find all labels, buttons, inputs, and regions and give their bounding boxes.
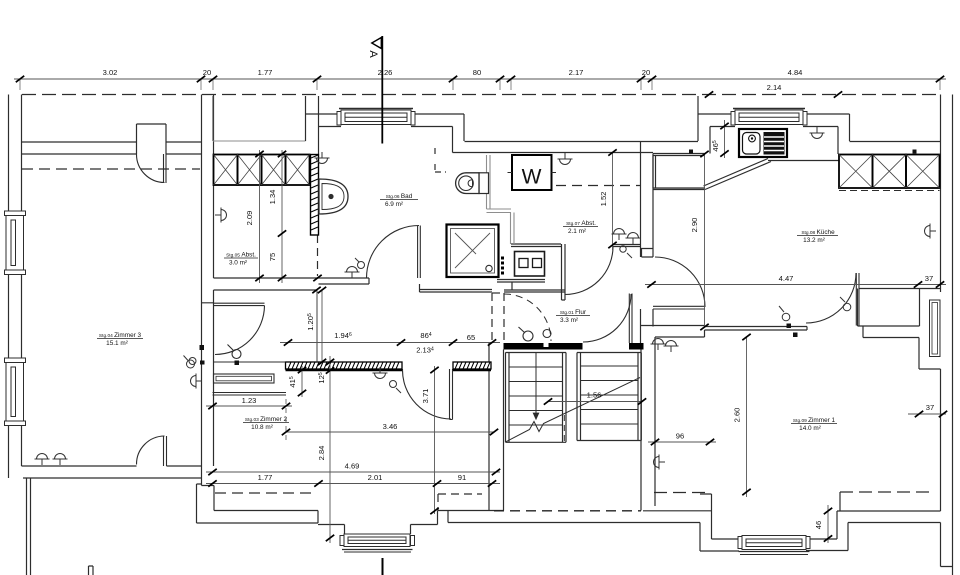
balustrade hatched strip east segment xyxy=(453,362,491,370)
svg-text:3.3 m²: 3.3 m² xyxy=(560,317,578,324)
kitchen chamfered wall outer diagonal xyxy=(705,162,771,190)
dimension 3.71 vertical xyxy=(434,366,436,514)
room label zimmer1 xyxy=(793,417,836,432)
outlet symbol abst07 pair with switch xyxy=(612,229,627,241)
svg-text:3.71: 3.71 xyxy=(421,389,430,404)
outlet circle at zimmer2 west wall xyxy=(189,358,196,365)
door zimmer2-hall leaf xyxy=(450,369,453,420)
svg-text:10.8 m²: 10.8 m² xyxy=(251,424,273,431)
outlet symbol zimmer1 west xyxy=(654,455,666,470)
svg-text:Stg.08 Küche: Stg.08 Küche xyxy=(801,229,835,236)
stairwell west wall outer line xyxy=(488,343,490,511)
door bad swing arc xyxy=(367,226,420,279)
flur north wall jog xyxy=(504,290,565,292)
zimmer2 dormer west wall xyxy=(213,486,215,511)
dimension 2.14 ticks on roof line xyxy=(705,91,713,97)
svg-text:80: 80 xyxy=(473,68,481,77)
section line A-A top xyxy=(367,36,382,144)
switch symbol near kitchen south door xyxy=(782,313,790,321)
abst05 south wall lower line xyxy=(214,289,317,291)
svg-text:6.9 m²: 6.9 m² xyxy=(385,201,403,208)
thin vertical line east of balustrade area xyxy=(316,290,318,362)
svg-text:Stg.07 Abst.: Stg.07 Abst. xyxy=(566,220,596,227)
kitchen closet dashed front line xyxy=(839,190,940,192)
svg-text:4.69: 4.69 xyxy=(345,462,360,471)
kitchen counter front edge xyxy=(768,160,839,162)
svg-text:A: A xyxy=(367,50,379,58)
bad south wall upper line xyxy=(319,277,370,279)
svg-text:20: 20 xyxy=(642,68,650,77)
svg-text:75: 75 xyxy=(268,253,277,261)
kitchen southwest box outline xyxy=(653,156,705,190)
window zimmer1 dormer south xyxy=(738,536,810,555)
south wall outer line under stairwell xyxy=(448,522,700,524)
abst05 south wall upper line xyxy=(214,277,319,279)
dimension 2.60 vertical zimmer1 xyxy=(746,337,748,497)
socket marks on walls xyxy=(200,150,917,366)
dashed under-roof corner zimmer2 east xyxy=(438,494,482,510)
wall segment east of bad door upper xyxy=(420,289,492,291)
wall zimmer3/abst05 band east line xyxy=(213,95,215,467)
window zimmer2 dormer south xyxy=(340,534,415,552)
svg-text:96: 96 xyxy=(676,432,684,441)
washbasin bad xyxy=(319,179,348,214)
kitchen dormer west cheek outer xyxy=(697,96,699,141)
zimmer1 dormer inner face east xyxy=(837,369,941,511)
dimension chain top xyxy=(14,79,946,90)
door zimmer3 south leaf xyxy=(164,436,167,466)
stairs right flight rails xyxy=(577,353,641,441)
dimension 4.69 horizontal xyxy=(206,471,500,473)
dimension 1.23 horizontal xyxy=(285,399,287,443)
door abst05-zimmer2 leaf xyxy=(214,303,265,305)
attic pocket bottom line xyxy=(213,140,306,142)
bad dormer east cheek outer line xyxy=(463,114,465,141)
bad dormer front outer face xyxy=(306,113,465,115)
svg-text:4.84: 4.84 xyxy=(788,68,803,77)
stairs down arrow xyxy=(533,353,539,419)
bad dormer front inner face xyxy=(319,126,453,128)
door abst07 swing arc xyxy=(565,247,613,295)
svg-text:1.77: 1.77 xyxy=(258,68,273,77)
small stub bottom far left xyxy=(89,566,94,575)
kitchen closet row with X boxes xyxy=(839,155,940,189)
south wall left of stairwell xyxy=(438,511,505,525)
zimmer2 dormer east pocket xyxy=(411,525,438,535)
new wall flur south black band west xyxy=(504,343,583,350)
svg-text:2.01: 2.01 xyxy=(368,473,383,482)
kitchen dormer east cheek xyxy=(850,114,941,142)
dimension 96 horizontal zimmer1 xyxy=(648,441,716,443)
zimmer1 north wall west band xyxy=(641,326,705,338)
zimmer3 south wall inner line xyxy=(22,465,202,467)
svg-text:2.26: 2.26 xyxy=(378,68,393,77)
window west upper xyxy=(5,211,26,275)
outlet symbol bad north xyxy=(315,152,330,164)
bathroom radiator hatched strip xyxy=(311,155,319,236)
wall segment east of bad door lower xyxy=(202,284,493,303)
svg-text:2.84: 2.84 xyxy=(317,446,326,461)
stairs left flight treads xyxy=(509,367,563,425)
kitchen dormer front inner face xyxy=(710,127,838,155)
door zimmer3 south swing arc xyxy=(136,436,164,465)
zimmer2 dormer inner face xyxy=(214,510,318,512)
outer wall west inner face xyxy=(21,95,23,467)
stairwell west wall inner line xyxy=(503,350,505,511)
svg-text:W: W xyxy=(522,166,542,189)
dimension 1.52 abst07 xyxy=(612,152,614,250)
outer wall east outer face xyxy=(952,95,954,575)
svg-text:91: 91 xyxy=(458,473,466,482)
door flur-zimmer1 leaf xyxy=(629,294,632,344)
zimmer2 dormer outer face xyxy=(197,522,319,524)
svg-text:65: 65 xyxy=(467,333,475,342)
zimmer3 south wall outer line xyxy=(23,477,202,479)
dimension 12.5 and 2.84 vertical xyxy=(329,356,331,543)
wall west of flur vertical xyxy=(562,244,566,300)
dashed knee wall marks bad east xyxy=(435,148,446,172)
svg-text:Stg.01 Flur: Stg.01 Flur xyxy=(560,309,587,316)
section line A-A bottom stub xyxy=(382,558,384,575)
stairs right flight treads xyxy=(581,366,639,424)
stairs dashed rail below cut xyxy=(563,415,565,441)
outlet symbol bad floor with circle xyxy=(345,267,360,279)
svg-text:Stg.06 Bad: Stg.06 Bad xyxy=(386,193,413,200)
dashed ceiling-height line zimmer3 xyxy=(22,168,200,170)
door zimmer3 north swing arc xyxy=(136,154,164,183)
long wall line mid lower xyxy=(453,152,654,154)
outer wall west outer face xyxy=(8,95,10,479)
zimmer1 dormer outer line east xyxy=(848,523,953,567)
door kitchen south leaf xyxy=(856,273,859,326)
svg-text:4.47: 4.47 xyxy=(779,274,794,283)
outlet symbol zimmer1 north pair xyxy=(651,339,666,351)
outer wall east xyxy=(940,95,942,293)
zimmer1 west wall inner line xyxy=(654,337,656,506)
zimmer1 dormer inner face west xyxy=(643,494,742,539)
svg-text:2.09: 2.09 xyxy=(245,211,254,226)
door flur-zimmer1 swing arc xyxy=(583,294,631,342)
attic pocket above abst05 west line xyxy=(212,96,214,141)
zimmer1 east niche walls xyxy=(919,338,941,370)
outlet symbol below balustrade xyxy=(373,367,388,379)
zimmer1 dormer east pocket xyxy=(806,492,848,551)
svg-text:14.0 m²: 14.0 m² xyxy=(799,425,821,432)
svg-text:1.56: 1.56 xyxy=(587,391,602,400)
dimension 46.5 kitchen counter xyxy=(724,120,726,158)
wall piece between flur and kitchen doors xyxy=(641,309,654,343)
door zimmer3 north leaf xyxy=(136,154,859,466)
svg-text:3.46: 3.46 xyxy=(383,422,398,431)
door zimmer2-hall swing arc xyxy=(402,369,451,419)
shower bad xyxy=(447,225,499,278)
room label zimmer3 xyxy=(99,332,142,347)
kitchen counter top wall line xyxy=(653,154,705,156)
dimension 41.5 vertical xyxy=(301,366,303,397)
svg-text:1.77: 1.77 xyxy=(258,473,273,482)
dimension 1.56 stairs xyxy=(548,401,642,403)
window kitchen dormer xyxy=(731,109,807,126)
bad northeast corner xyxy=(452,127,454,153)
switch circle zimmer3 east xyxy=(187,360,195,368)
under-stairs wall dashed thick xyxy=(494,510,641,512)
svg-text:3.0 m²: 3.0 m² xyxy=(229,260,247,267)
abst07 west wall gray upper xyxy=(486,155,488,209)
door jambs zimmer3 north xyxy=(137,124,167,154)
svg-text:Stg.05 Abst.: Stg.05 Abst. xyxy=(226,252,256,259)
zimmer1 north wall mid band xyxy=(705,327,808,331)
new wall flur south black band east xyxy=(629,343,644,350)
kitchen south wall east lower band xyxy=(863,326,919,338)
south wall step left xyxy=(447,511,449,523)
dashed ceiling-height line abst07 xyxy=(556,185,640,187)
abst07 west wall gray lower vertical xyxy=(511,213,515,245)
stairs left flight top and bottom xyxy=(506,353,567,443)
wall east of abst07 door xyxy=(613,245,641,247)
dimension chain mid 1.94 86 65 xyxy=(280,342,500,344)
bad south wall lower line xyxy=(319,278,370,284)
toilet bad xyxy=(456,173,489,194)
stairs cut line with zigzag xyxy=(506,378,641,443)
svg-text:3.02: 3.02 xyxy=(103,68,118,77)
switch symbol zimmer1 north xyxy=(843,303,851,311)
room label kueche xyxy=(801,229,835,244)
dimension 46 vertical bottom right xyxy=(827,505,829,543)
svg-text:37: 37 xyxy=(925,274,933,283)
room label bad xyxy=(385,193,413,208)
kitchen west wall stub lower cap xyxy=(642,249,654,258)
door kitchen south swing arc xyxy=(806,273,856,323)
dimension verticals abst05 xyxy=(260,150,283,283)
kitchen dormer front outer face xyxy=(698,113,850,115)
zimmer1 west wall outer line xyxy=(640,349,642,511)
west outer wall lower continuation xyxy=(27,478,31,575)
stairs right flight top and bottom xyxy=(577,353,641,441)
zimmer1 dormer outer line west xyxy=(700,523,739,552)
niche wall segment near stairs top xyxy=(497,280,545,291)
window west lower xyxy=(5,358,26,426)
wall zimmer3 north inner line xyxy=(22,153,201,155)
svg-text:2.17: 2.17 xyxy=(569,68,584,77)
svg-text:Stg.04 Zimmer 3: Stg.04 Zimmer 3 xyxy=(99,332,142,339)
kitchen chamfered wall inner diagonal xyxy=(704,159,769,187)
balustrade hatched strip west segment xyxy=(286,362,403,370)
svg-text:1.34: 1.34 xyxy=(268,190,277,205)
door kitchen west leaf xyxy=(653,306,705,309)
outlet symbol abst07 northeast xyxy=(558,153,573,165)
svg-text:37: 37 xyxy=(926,403,934,412)
svg-text:Stg.09 Zimmer 1: Stg.09 Zimmer 1 xyxy=(793,417,836,424)
dimension chain 1.77 2.01 91 xyxy=(206,483,500,485)
wall between abst07 and flur horizontal xyxy=(511,244,561,247)
stove unit flur niche xyxy=(515,252,545,277)
dimension 1.20 vertical xyxy=(321,290,323,362)
svg-text:13.2 m²: 13.2 m² xyxy=(803,237,825,244)
wall zimmer3/abst05 band west line xyxy=(201,95,203,467)
kitchen west wall outer line xyxy=(640,141,642,257)
thin wall line above balustrade west xyxy=(214,361,286,363)
dimension 2.90 kitchen xyxy=(704,154,706,327)
ventilation dots next to shower xyxy=(501,257,504,275)
roof edge dashed line top xyxy=(22,94,940,96)
long wall line mid upper xyxy=(465,141,699,143)
southwest wall step xyxy=(197,466,215,523)
stairs left flight rails xyxy=(506,353,567,443)
door abst05-zimmer2 swing arc xyxy=(215,306,265,355)
svg-text:2.60: 2.60 xyxy=(733,408,742,423)
room label flur xyxy=(560,309,587,324)
zimmer2 dormer west pocket xyxy=(318,511,345,535)
roof edge dashed line bottom right xyxy=(654,491,930,494)
door bad leaf xyxy=(418,226,421,279)
abst07 west wall gray jog xyxy=(487,209,512,213)
dashed wall under stairs west side xyxy=(492,293,504,342)
kitchen south wall east rectangle xyxy=(858,289,941,327)
kitchen northwest inner corner xyxy=(709,127,711,154)
window bad dormer xyxy=(337,109,415,126)
door abst05-zimmer2 handle xyxy=(232,350,241,359)
door kitchen west swing arc xyxy=(655,257,705,307)
bad dormer west cheek outer line xyxy=(305,96,307,141)
svg-text:20: 20 xyxy=(203,68,211,77)
window zimmer1 east niche xyxy=(930,300,941,357)
svg-text:2.90: 2.90 xyxy=(690,218,699,233)
svg-text:15.1 m²: 15.1 m² xyxy=(106,340,128,347)
room label abst05 xyxy=(226,252,256,267)
dimension 37 zimmer1 east xyxy=(908,413,946,415)
svg-text:46: 46 xyxy=(814,521,823,529)
svg-text:1.23: 1.23 xyxy=(242,396,257,405)
flur cellar door dashed swing arc xyxy=(504,294,551,341)
washing machine W xyxy=(508,155,557,190)
dimension 3.46 horizontal xyxy=(286,431,494,433)
garderobe wardrobe rectangle xyxy=(214,374,275,383)
outlet symbol kitchen east xyxy=(925,224,937,239)
kitchen west wall inner line xyxy=(641,154,654,249)
roof edge dashed line zimmer2 xyxy=(215,492,317,494)
outlet symbol abst05 west xyxy=(215,208,227,223)
flur cellar door handle circles xyxy=(523,331,533,341)
svg-text:Stg.03 Zimmer 2: Stg.03 Zimmer 2 xyxy=(245,416,288,423)
dashed line below bad radiator xyxy=(317,235,319,276)
svg-text:2.14: 2.14 xyxy=(767,83,782,92)
svg-text:2.1 m²: 2.1 m² xyxy=(568,228,586,235)
closet row bathroom wall with X boxes xyxy=(214,155,310,186)
garderobe niche bottom wall xyxy=(213,393,287,396)
svg-text:1.52: 1.52 xyxy=(599,192,608,207)
outlet symbol zimmer3 south pair xyxy=(35,454,50,466)
kitchen sink unit xyxy=(739,129,787,157)
room label abst07 xyxy=(566,220,596,235)
lamp symbol kitchen counter xyxy=(810,127,825,139)
dimension 4.47 and 37 kitchen south xyxy=(645,284,946,286)
room label zimmer2 xyxy=(245,416,288,431)
bad dormer west cheek inner line xyxy=(318,96,320,154)
outlet symbol zimmer3 east xyxy=(191,374,203,389)
wall zimmer3 north outer line xyxy=(22,141,201,143)
